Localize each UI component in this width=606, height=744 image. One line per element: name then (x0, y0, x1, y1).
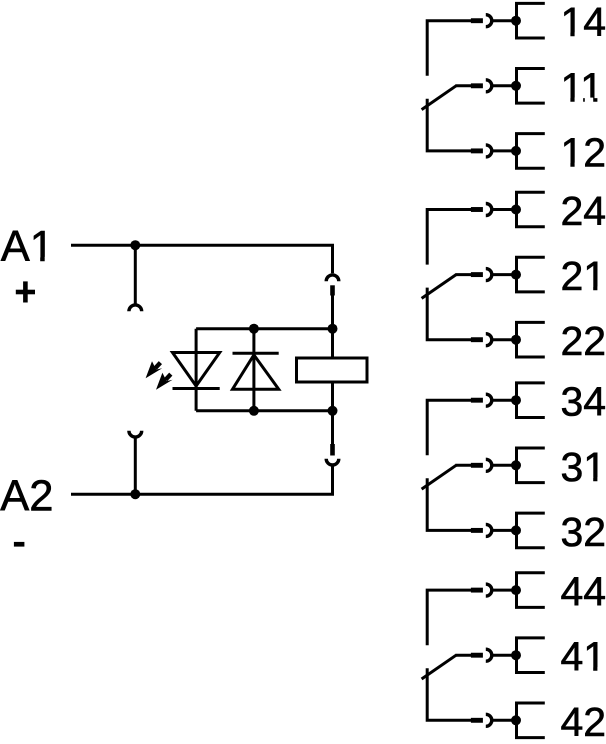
label 22 (561, 318, 606, 364)
wire: contact 24 branch (corner from common rail) (427, 210, 471, 265)
wire: socket to A2 line (71, 465, 333, 494)
junction dot, terminal 12 (511, 146, 521, 156)
connector pin, coil plus side (330, 285, 335, 295)
connector pin, contact 14 (471, 18, 483, 23)
label 42 (561, 699, 606, 744)
freewheeling diode (233, 353, 279, 389)
LED light arrow 1 (146, 361, 163, 378)
wire: socket to terminal 44 (492, 589, 516, 592)
wire: suppressor top rail (196, 327, 332, 330)
connector pin, coil minus side (330, 444, 335, 456)
switch arm (changeover contact) (422, 86, 457, 110)
junction dot, terminal 22 (511, 335, 521, 345)
wire: contact 44 branch (corner from common rail) (427, 590, 471, 645)
terminal clamp 42 (517, 703, 545, 738)
wire: common pole 11 (455, 84, 471, 87)
connector pin, contact 12 (471, 148, 483, 153)
connector socket, contact 44 (486, 584, 492, 596)
label 14 (561, 0, 606, 45)
minus sign (14, 542, 25, 547)
label 34 (561, 379, 606, 425)
connector socket, contact 11 (486, 80, 492, 92)
switch arm (changeover contact) (422, 275, 457, 299)
svg-text:32: 32 (561, 509, 606, 555)
wire: suppressor bottom rail (196, 409, 332, 412)
label 11 (561, 64, 606, 110)
junction dot on A1 line (130, 240, 140, 250)
junction dot, terminal 31 (511, 460, 521, 470)
label 24 (561, 188, 606, 234)
wire: pin to top rail and into coil (331, 296, 334, 412)
junction dot, terminal 34 (511, 395, 521, 405)
wire: socket to terminal 24 (492, 208, 516, 211)
label 44 (561, 569, 606, 615)
connector pin, contact 11 (471, 83, 483, 88)
terminal clamp 34 (517, 383, 545, 418)
svg-text:A1: A1 (1, 223, 54, 271)
junction dot, bottom rail right (328, 406, 338, 416)
wire: contact 14 branch (corner from common rail) (427, 21, 471, 76)
terminal clamp 22 (517, 322, 545, 357)
wire: contact 34 branch (corner from common rail) (427, 400, 471, 455)
connector pin, contact 44 (471, 588, 483, 593)
wire: socket to terminal 42 (492, 719, 516, 722)
wire: contact 32 branch (NC fixed contact) (427, 478, 471, 530)
connector pin, contact 42 (471, 718, 483, 723)
switch arm (changeover contact) (422, 465, 457, 489)
terminal clamp 24 (517, 192, 545, 227)
svg-text:12: 12 (561, 129, 606, 175)
junction dot, terminal 11 (511, 81, 521, 91)
wire: coil to bottom junction (331, 382, 334, 411)
junction dot, diode bottom (249, 406, 259, 416)
socket at A1 stub end (129, 305, 142, 311)
label 41 (561, 634, 606, 680)
junction dot, terminal 32 (511, 525, 521, 535)
plus sign (16, 281, 35, 302)
junction dot, diode top (249, 324, 259, 334)
terminal clamp 32 (517, 513, 545, 548)
junction dot on A2 line (130, 489, 140, 499)
terminal label A1 (1, 223, 54, 271)
junction dot, terminal 44 (511, 585, 521, 595)
switch arm (changeover contact) (422, 655, 457, 679)
connector pin, contact 32 (471, 528, 483, 533)
terminal clamp 41 (517, 638, 545, 673)
connector pin, contact 34 (471, 398, 483, 403)
connector socket, coil minus side (326, 459, 339, 465)
svg-text:41: 41 (561, 634, 606, 680)
connector pin, contact 22 (471, 337, 483, 342)
junction dot, terminal 24 (511, 205, 521, 215)
connector socket, contact 22 (486, 334, 492, 346)
wire: A2 stub (134, 437, 137, 494)
svg-text:31: 31 (561, 444, 606, 490)
connector pin, contact 41 (471, 653, 483, 658)
LED (status indicator) (173, 329, 254, 411)
wire: socket to terminal 34 (492, 399, 516, 402)
wire: A1 stub (134, 245, 137, 305)
terminal clamp 12 (517, 134, 545, 169)
wire: LED branch vertical (195, 329, 198, 411)
wire: contact 22 branch (NC fixed contact) (427, 288, 471, 340)
wire: socket to terminal 31 (492, 464, 516, 467)
svg-text:A2: A2 (0, 472, 53, 520)
wire: common pole 41 (455, 654, 471, 657)
wire: common pole 31 (455, 464, 471, 467)
connector pin, contact 21 (471, 272, 483, 277)
connector socket, coil plus side (326, 275, 339, 281)
connector socket, contact 24 (486, 204, 492, 216)
label 21 (561, 253, 606, 299)
junction dot, terminal 41 (511, 650, 521, 660)
terminal clamp 11 (517, 69, 545, 104)
connector pin, contact 31 (471, 463, 483, 468)
label 12 (561, 129, 606, 175)
connector socket, contact 31 (486, 459, 492, 471)
junction dot, terminal 21 (511, 270, 521, 280)
wire: contact 12 branch (NC fixed contact) (427, 99, 471, 151)
connector socket, contact 42 (486, 714, 492, 726)
junction dot, top rail right (328, 324, 338, 334)
svg-text:22: 22 (561, 318, 606, 364)
socket at A2 stub end (129, 431, 142, 437)
wire: socket to terminal 11 (492, 84, 516, 87)
wire: A1 line (71, 245, 333, 273)
connector socket, contact 21 (486, 269, 492, 281)
terminal clamp 44 (517, 573, 545, 608)
wire: junction to pin (331, 411, 334, 444)
terminal clamp 31 (517, 448, 545, 483)
terminal label A2 (0, 472, 53, 520)
wire: socket to terminal 22 (492, 338, 516, 341)
label 31 (561, 444, 606, 490)
junction dot, terminal 42 (511, 715, 521, 725)
terminal clamp 14 (517, 3, 545, 38)
svg-text:42: 42 (561, 699, 606, 744)
svg-text:14: 14 (561, 0, 606, 45)
svg-text:21: 21 (561, 253, 606, 299)
svg-text:34: 34 (561, 379, 606, 425)
terminal clamp 21 (517, 257, 545, 292)
svg-text:24: 24 (561, 188, 606, 234)
wire: contact 42 branch (NC fixed contact) (427, 668, 471, 720)
connector socket, contact 32 (486, 524, 492, 536)
wire: common pole 21 (455, 273, 471, 276)
wire: socket to terminal 12 (492, 149, 516, 152)
wire: socket to terminal 41 (492, 654, 516, 657)
connector pin, contact 24 (471, 207, 483, 212)
wire: socket to terminal 32 (492, 529, 516, 532)
connector socket, contact 12 (486, 145, 492, 157)
connector socket, contact 41 (486, 649, 492, 661)
label 32 (561, 509, 606, 555)
svg-text:44: 44 (561, 569, 606, 615)
relay coil K1 (297, 358, 368, 382)
LED light arrow 2 (156, 373, 173, 390)
svg-text:11: 11 (561, 64, 604, 110)
junction dot, terminal 14 (511, 16, 521, 26)
wire: socket to terminal 21 (492, 273, 516, 276)
wire: socket to terminal 14 (492, 19, 516, 22)
connector socket, contact 34 (486, 394, 492, 406)
connector socket, contact 14 (486, 15, 492, 27)
